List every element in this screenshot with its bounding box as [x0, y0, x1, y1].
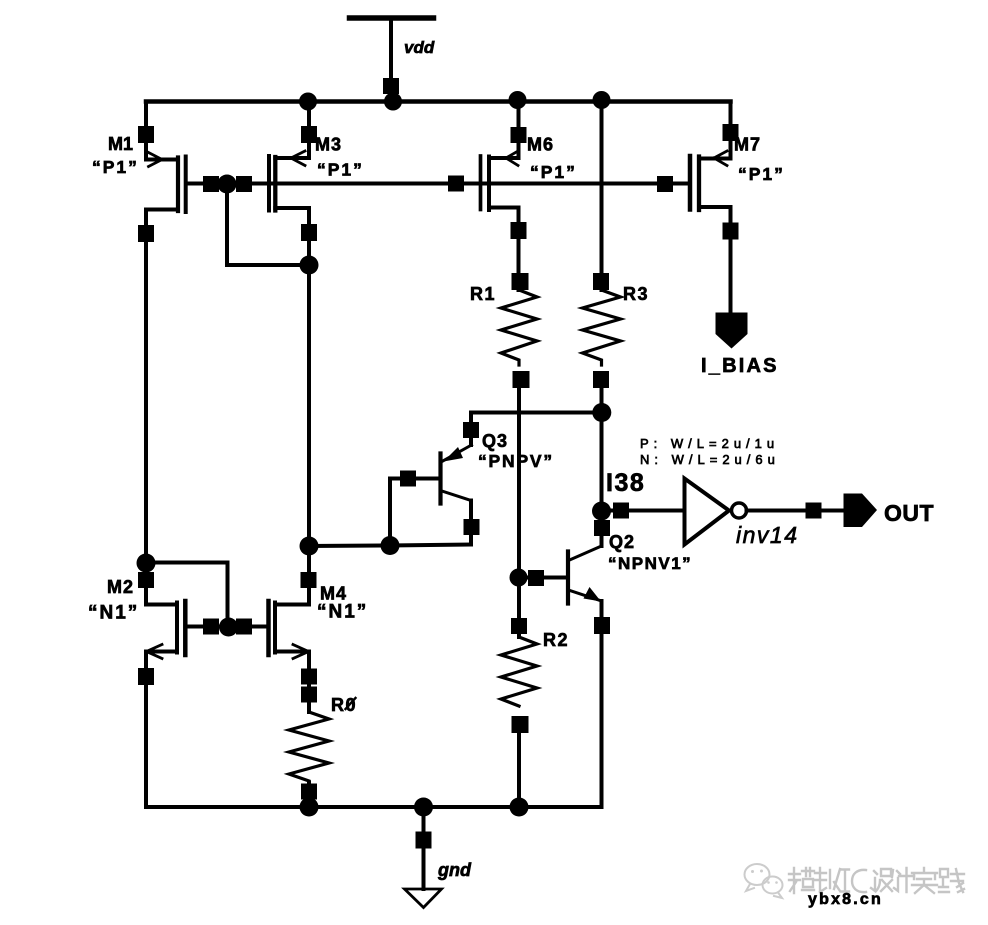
wire ground rail	[146, 805, 602, 809]
junction dot rail-R3	[593, 91, 611, 109]
junction dot M2 drain node	[137, 554, 156, 573]
pin square M6 drain	[511, 222, 527, 239]
transistor M7 (PMOS, mirrored)	[690, 102, 739, 211]
pin square Q2 emitter	[594, 617, 610, 634]
svg-text:R0: R0	[331, 695, 357, 715]
watermark url ybx8.cn	[808, 891, 883, 908]
wire I36 to inverter	[602, 509, 685, 513]
wire node to Q3 emitter	[471, 413, 602, 446]
junction dot M4 drain node	[300, 537, 319, 556]
svg-text:P: W/L=2u/1u: P: W/L=2u/1u	[640, 436, 779, 451]
label M7	[734, 135, 761, 155]
pin square M2 source	[138, 668, 154, 685]
wire M6 drain to R1	[517, 208, 521, 291]
svg-text:Q2: Q2	[609, 532, 635, 552]
pin square M7 drain	[723, 223, 739, 240]
pin OUT	[844, 494, 878, 528]
wire M2 source to ground rail	[144, 652, 148, 807]
pin square M7 gate	[657, 176, 673, 192]
transistor M4 (NMOS, mirrored)	[269, 572, 317, 659]
svg-text:I_BIAS: I_BIAS	[701, 355, 779, 377]
pin square R3 top	[593, 273, 609, 290]
junction dot rail-M6	[509, 91, 527, 109]
pin square M2 drain	[138, 572, 154, 588]
label M6	[527, 135, 554, 155]
pin square vdd	[383, 78, 399, 94]
pin square M4 gate	[236, 619, 252, 635]
svg-text:inv14: inv14	[736, 522, 798, 548]
resistor R2	[501, 634, 537, 706]
pin square Q2 base	[528, 570, 544, 586]
annotation W/L text	[640, 436, 780, 467]
svg-text:M3: M3	[315, 135, 342, 155]
junction dot rail-R2	[510, 798, 529, 817]
wire gate bias line (all PMOS gates)	[187, 182, 690, 186]
resistor R0	[289, 712, 329, 781]
pin square Q3 collector	[464, 519, 480, 535]
pin square M6 gate	[448, 176, 464, 192]
junction dot rail-vdd	[384, 93, 402, 111]
pin square M1 gate	[203, 176, 219, 192]
label Q2	[609, 532, 635, 552]
transistor M3 (PMOS, mirrored)	[269, 102, 317, 211]
junction dot R3 bottom node	[592, 403, 611, 422]
pin square R2 bottom	[512, 716, 529, 733]
transistor Q2 (NPN)	[519, 520, 611, 807]
resistor R3	[583, 290, 621, 365]
value label "P1" of M6	[530, 162, 577, 182]
label R1	[470, 284, 496, 304]
junction dot Q2 base node	[510, 569, 528, 587]
net label gnd	[437, 860, 472, 880]
value label "N1" of M4	[317, 602, 368, 623]
wire Q3 node to M4 drain node	[309, 544, 390, 549]
wire M3 drain vertical	[307, 208, 311, 605]
pin square Q3 base	[400, 471, 416, 487]
svg-text:R2: R2	[543, 630, 569, 650]
wire M1 drain vertical	[144, 210, 148, 605]
wire inverter output	[747, 509, 844, 513]
node I36: junction dot	[592, 502, 611, 521]
transistor Q3 (PNP)	[390, 445, 472, 546]
pin square R1 bottom	[513, 371, 530, 388]
wire M2 diode connection	[146, 563, 228, 627]
svg-text:R3: R3	[623, 284, 649, 304]
svg-text:R1: R1	[470, 284, 496, 304]
pin I_BIAS	[716, 313, 748, 349]
net label vdd	[404, 38, 435, 57]
pin square R2 top	[511, 578, 527, 638]
net label I_BIAS	[701, 355, 779, 377]
net label OUT	[884, 500, 934, 526]
svg-text:ybx8.cn: ybx8.cn	[808, 891, 883, 908]
pin square M3 drain	[301, 224, 317, 241]
label M1	[108, 134, 133, 154]
pin square R0 bottom	[301, 784, 317, 800]
junction dot M3 drain node	[300, 256, 319, 275]
svg-text:M2: M2	[107, 577, 134, 597]
value label "P1" of M3	[317, 160, 364, 180]
wire R1 bottom to Q2 base node	[517, 388, 521, 578]
svg-text:OUT: OUT	[884, 500, 934, 526]
transistor M6 (PMOS, mirrored)	[481, 100, 527, 210]
label R2	[543, 630, 569, 650]
pin square R3 bottom	[593, 371, 609, 388]
pin square M4 source	[301, 669, 317, 685]
label R0	[331, 695, 357, 715]
wire R2 bottom to ground rail	[517, 733, 521, 807]
svg-text:“P1”: “P1”	[317, 160, 364, 180]
pin square R1 top	[512, 273, 529, 290]
label M3	[315, 135, 342, 155]
wire M7 drain to I_BIAS	[729, 207, 733, 313]
junction dot NMOS gate node	[219, 618, 238, 637]
pin square inverter output	[806, 503, 822, 519]
junction dot rail-gnd	[414, 798, 433, 817]
svg-text:gnd: gnd	[437, 860, 472, 880]
svg-text:“P1”: “P1”	[92, 157, 139, 177]
vdd supply bar	[350, 15, 434, 21]
svg-text:“P1”: “P1”	[738, 164, 785, 184]
transistor M1 (PMOS)	[138, 102, 186, 213]
pin square R0 top	[301, 687, 317, 703]
junction dot gate node	[218, 175, 237, 194]
svg-text:M7: M7	[734, 135, 761, 155]
wire M4 source to R0	[307, 652, 311, 712]
svg-text:“N1”: “N1”	[317, 602, 368, 623]
watermark text 模拟IC设计实践 (approximated strokes)	[789, 868, 964, 893]
svg-text:“P1”: “P1”	[530, 162, 577, 182]
wire gnd stem	[422, 807, 426, 889]
wire R3 branch from rail	[600, 100, 604, 290]
wire R0 bottom to rail	[307, 783, 311, 807]
label M2	[107, 577, 134, 597]
svg-text:“N1”: “N1”	[88, 603, 139, 624]
pin square inverter input	[613, 503, 629, 519]
svg-text:“PNPV”: “PNPV”	[478, 451, 554, 471]
svg-text:M4: M4	[320, 584, 347, 604]
value label "P1" of M7	[738, 164, 785, 184]
inverter inv14	[685, 479, 747, 545]
net label I36	[606, 469, 645, 497]
wire vdd stem	[389, 18, 393, 100]
pin square M1 drain	[138, 225, 154, 242]
wire gate node to M3 drain (diode connection)	[227, 184, 309, 265]
svg-text:M6: M6	[527, 135, 554, 155]
value label "PNPV" of Q3	[478, 451, 554, 471]
wire top vdd rail	[146, 99, 731, 104]
svg-text:“NPNV1”: “NPNV1”	[608, 554, 692, 573]
pin square M3 gate	[236, 176, 252, 192]
watermark logo (wechat icon)	[745, 864, 783, 898]
label inv14	[736, 522, 798, 548]
pin square M2 gate	[203, 619, 219, 635]
label Q3	[482, 431, 508, 451]
pin square gnd	[416, 832, 432, 849]
wire R3 bottom down to Q2 collector	[600, 388, 604, 546]
junction dot rail-M3	[299, 93, 317, 111]
svg-text:vdd: vdd	[404, 38, 435, 57]
label M4	[320, 584, 347, 604]
value label "P1" of M1	[92, 157, 139, 177]
svg-text:Q3: Q3	[482, 431, 508, 451]
pin square Q3 emitter	[463, 422, 479, 438]
junction dot Q3 base-collector	[381, 536, 400, 555]
junction dot rail-R0	[300, 798, 319, 817]
resistor R1	[501, 290, 537, 365]
wire NMOS gate line	[187, 625, 267, 629]
label R3	[623, 284, 649, 304]
svg-text:M1: M1	[108, 134, 133, 154]
value label "N1" of M2	[88, 603, 139, 624]
svg-text:N: W/L=2u/6u: N: W/L=2u/6u	[640, 452, 780, 467]
ground symbol	[405, 889, 442, 908]
transistor M2 (NMOS)	[146, 601, 185, 659]
value label "NPNV1" of Q2	[608, 554, 692, 573]
svg-text:I38: I38	[606, 469, 645, 497]
